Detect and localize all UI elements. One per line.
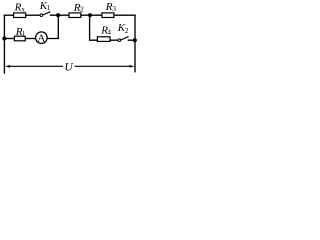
wire R1 to ammeter: [25, 38, 36, 40]
node right-rail junction dot: [133, 38, 137, 42]
svg-text:2: 2: [80, 5, 84, 14]
wire K1 to node B to node C to right rail: [51, 14, 136, 16]
resistor R1: [14, 36, 25, 41]
svg-text:A: A: [37, 32, 45, 44]
ammeter A: [36, 32, 48, 45]
wire K2 to right rail: [128, 39, 134, 41]
node C junction dot: [88, 13, 92, 17]
svg-text:1: 1: [46, 3, 50, 12]
switch K2: [118, 37, 129, 42]
svg-text:1: 1: [22, 29, 26, 38]
svg-text:x: x: [21, 4, 25, 13]
wire right rail: [134, 15, 136, 72]
switch K1: [40, 12, 50, 17]
svg-text:2: 2: [125, 26, 129, 35]
wire left rail: [3, 15, 5, 73]
wire ammeter branch left: [4, 38, 14, 40]
resistor R4: [97, 37, 110, 42]
wire top-left segment: [4, 14, 13, 16]
U dimension line left segment with arrow: [5, 65, 63, 68]
wire node C down to R4: [90, 15, 98, 40]
svg-text:U: U: [65, 61, 74, 73]
wire R4 to K2: [110, 39, 118, 41]
resistor R2: [69, 13, 81, 18]
resistor Rx: [14, 13, 26, 18]
node B junction dot: [56, 13, 60, 17]
node left-rail junction dot: [2, 36, 6, 40]
U dimension line right segment with arrow: [75, 65, 135, 68]
wire Rx to K1: [26, 14, 40, 16]
wire ammeter to node B: [47, 15, 58, 38]
svg-text:4: 4: [107, 27, 111, 36]
resistor R3: [102, 13, 114, 18]
svg-text:3: 3: [112, 4, 116, 13]
